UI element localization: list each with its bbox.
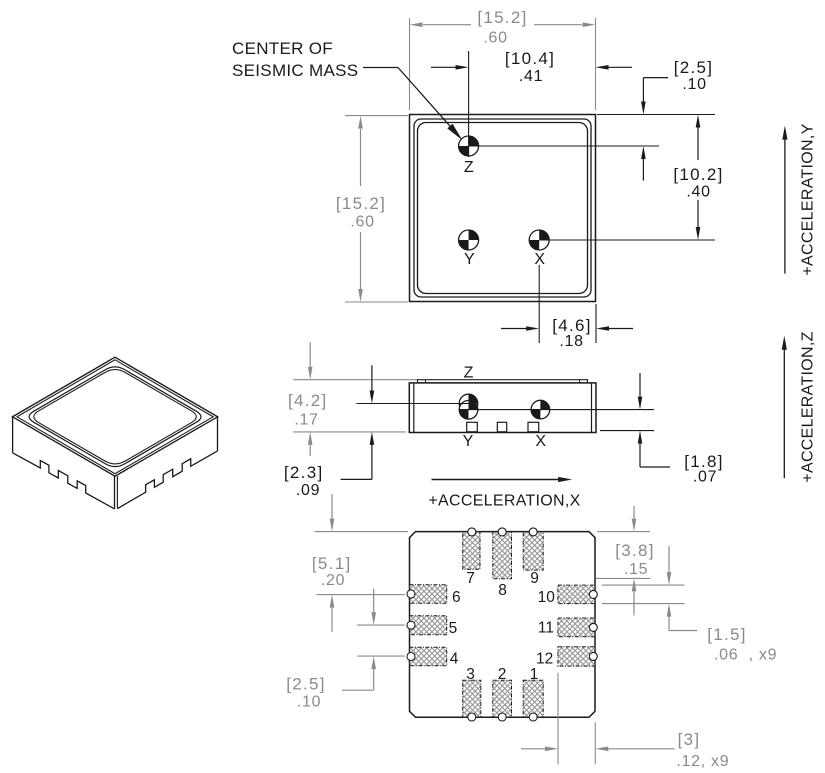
svg-text:.20: .20 <box>321 572 345 589</box>
svg-text:[15.2]: [15.2] <box>336 194 386 213</box>
svg-text:[2.3]: [2.3] <box>284 463 324 482</box>
svg-text:2: 2 <box>498 666 507 683</box>
svg-text:[4.2]: [4.2] <box>288 391 328 410</box>
svg-text:[2.5]: [2.5] <box>286 675 326 694</box>
svg-text:+ACCELERATION,Y: +ACCELERATION,Y <box>800 123 817 275</box>
svg-text:Z: Z <box>464 159 474 176</box>
svg-text:.07: .07 <box>693 469 717 486</box>
svg-text:+ACCELERATION,Z: +ACCELERATION,Z <box>800 331 817 482</box>
svg-text:3: 3 <box>466 666 475 683</box>
svg-text:.15: .15 <box>624 561 648 578</box>
svg-text:12: 12 <box>536 651 553 668</box>
svg-text:5: 5 <box>449 620 458 637</box>
svg-text:[3.8]: [3.8] <box>615 541 655 560</box>
svg-text:[10.2]: [10.2] <box>673 165 723 184</box>
svg-text:8: 8 <box>498 582 507 599</box>
svg-text:SEISMIC MASS: SEISMIC MASS <box>232 61 358 80</box>
svg-text:Z: Z <box>464 365 474 382</box>
svg-text:.06 , x9: .06 , x9 <box>714 647 777 664</box>
svg-text:.09: .09 <box>296 482 320 499</box>
svg-text:[15.2]: [15.2] <box>477 8 527 27</box>
svg-text:[5.1]: [5.1] <box>312 554 352 573</box>
svg-text:4: 4 <box>450 651 459 668</box>
svg-text:+ACCELERATION,X: +ACCELERATION,X <box>428 493 580 510</box>
svg-text:.10: .10 <box>297 694 321 711</box>
svg-text:.41: .41 <box>519 68 543 85</box>
svg-text:11: 11 <box>538 620 554 637</box>
svg-text:.17: .17 <box>294 412 318 429</box>
svg-text:10: 10 <box>538 589 556 606</box>
svg-text:[3]: [3] <box>678 730 701 749</box>
svg-text:X: X <box>535 433 546 450</box>
svg-text:[10.4]: [10.4] <box>505 49 555 68</box>
svg-text:.60: .60 <box>483 30 507 47</box>
svg-text:Y: Y <box>464 251 475 268</box>
svg-text:1: 1 <box>530 666 539 683</box>
svg-text:[1.5]: [1.5] <box>707 625 747 644</box>
svg-text:X: X <box>534 251 545 268</box>
svg-text:7: 7 <box>466 570 475 587</box>
svg-text:Y: Y <box>463 433 474 450</box>
svg-text:.12, x9: .12, x9 <box>676 753 729 770</box>
svg-text:6: 6 <box>452 589 461 606</box>
svg-text:[2.5]: [2.5] <box>674 58 714 77</box>
svg-text:.40: .40 <box>686 184 710 201</box>
svg-text:.10: .10 <box>682 76 706 93</box>
svg-text:CENTER OF: CENTER OF <box>232 39 333 58</box>
svg-text:.18: .18 <box>559 333 583 350</box>
svg-text:9: 9 <box>530 570 539 587</box>
svg-text:.60: .60 <box>350 214 374 231</box>
